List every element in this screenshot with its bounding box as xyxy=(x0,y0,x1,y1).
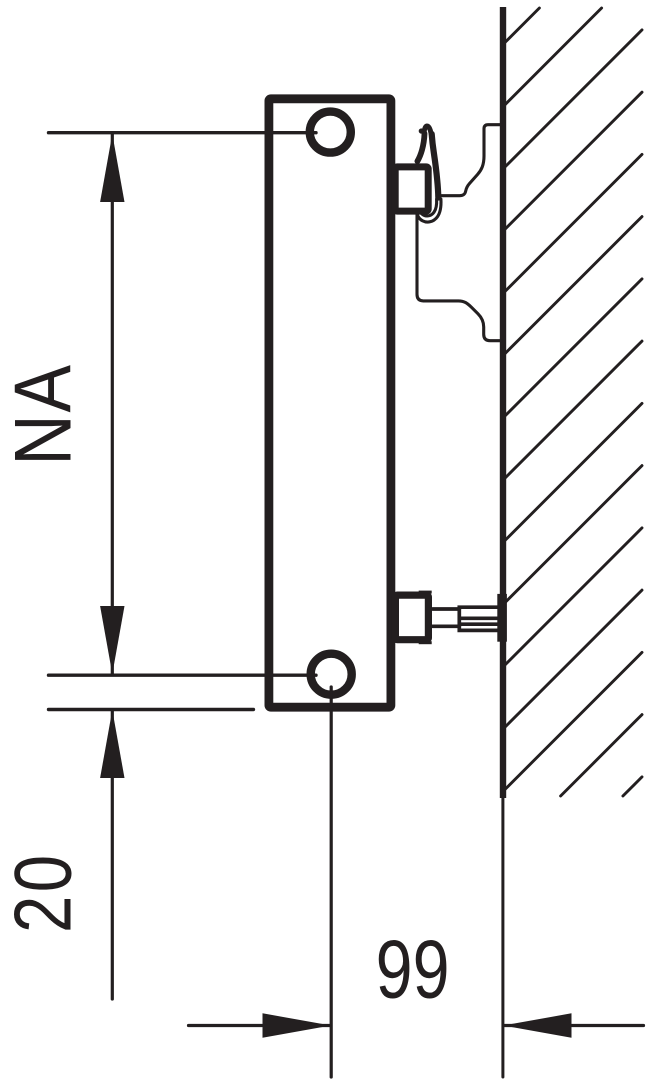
99 dimension line right tail xyxy=(504,1024,644,1027)
99 dimension line left tail xyxy=(189,1024,331,1027)
NA arrow down xyxy=(100,606,124,674)
bottom fixture union nut outline xyxy=(459,607,497,630)
extension line: radiator bottom xyxy=(49,708,254,711)
20 dimension line xyxy=(111,710,114,999)
NA dimension line xyxy=(111,134,114,674)
top bracket arm lower edge xyxy=(417,206,502,341)
wall face line xyxy=(500,7,506,798)
NA arrow up xyxy=(100,134,124,202)
bracket hook right leg xyxy=(432,134,439,198)
bottom mounting tab xyxy=(395,595,428,640)
extension line: wall face vertical xyxy=(501,798,504,1077)
bottom fixture stem xyxy=(433,609,460,626)
bracket hook lower loop inner xyxy=(419,199,436,216)
bottom tab top lip xyxy=(419,591,432,594)
svg-text:99: 99 xyxy=(376,922,450,1015)
bracket hook claw leg xyxy=(417,134,424,162)
top connection port xyxy=(310,112,351,153)
99 arrow left-pointing xyxy=(503,1013,571,1037)
extension line: port axis vertical xyxy=(330,687,333,1077)
radiator body xyxy=(269,99,391,707)
svg-text:NA: NA xyxy=(0,363,89,466)
wall hatching xyxy=(503,8,642,796)
bracket hook lower loop outer xyxy=(416,199,441,222)
svg-text:20: 20 xyxy=(0,852,88,933)
99 arrow right-pointing xyxy=(263,1013,331,1037)
top bracket arm upper edge xyxy=(441,125,502,196)
bottom wall plate xyxy=(497,594,507,642)
extension line: bottom port axis xyxy=(49,674,317,677)
bracket hook top cap xyxy=(424,126,431,134)
bottom connection port xyxy=(311,654,352,695)
top mounting tab xyxy=(395,167,428,211)
extension line: top port axis xyxy=(49,131,317,134)
bottom fixture thread lines xyxy=(459,618,497,624)
bracket hook left knob xyxy=(419,128,424,133)
bottom tab bottom lip xyxy=(419,641,432,644)
20 arrow up xyxy=(100,710,124,778)
